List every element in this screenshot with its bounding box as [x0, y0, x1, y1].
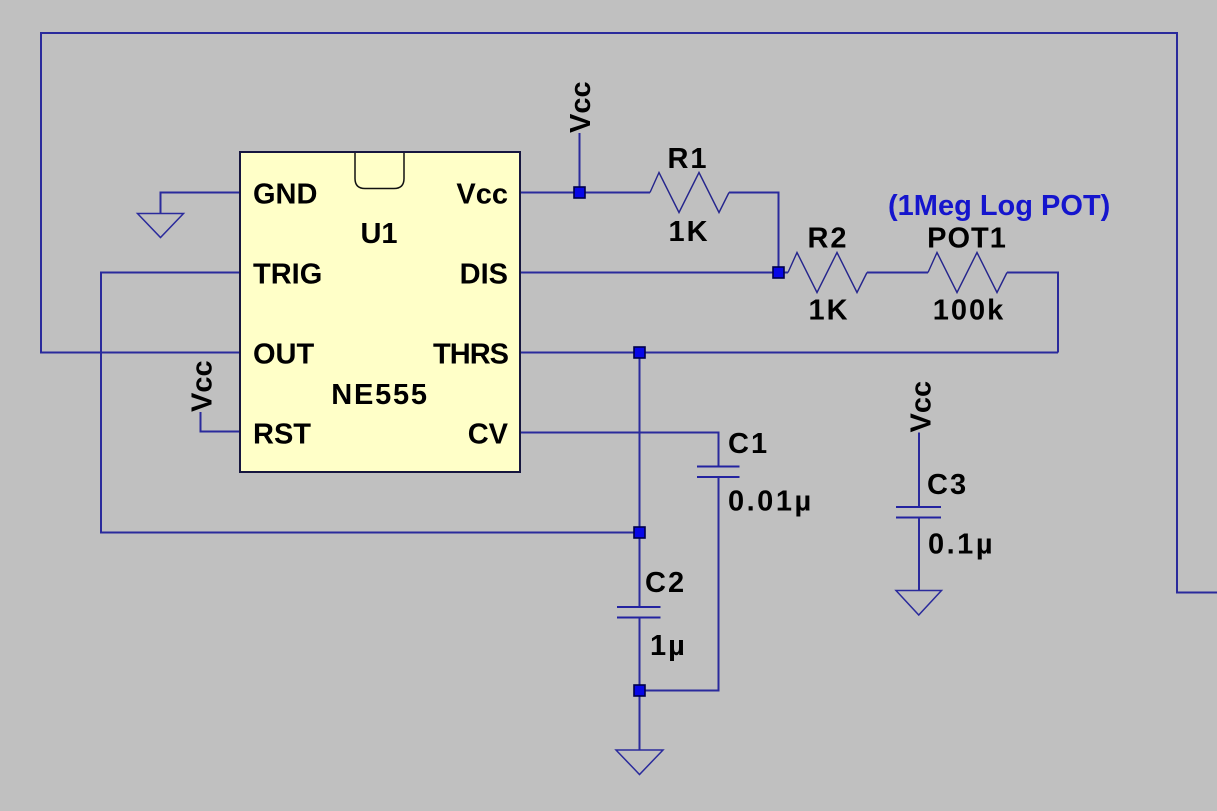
svg-text:(1Meg Log POT): (1Meg Log POT): [888, 190, 1110, 222]
ground (under C3): [896, 591, 942, 616]
svg-text:Vcc: Vcc: [456, 179, 508, 211]
svg-text:1K: 1K: [668, 216, 709, 248]
wire TRIG vertical drop at x=101: [100, 272, 102, 534]
svg-text:CV: CV: [468, 419, 509, 451]
svg-text:0.1µ: 0.1µ: [928, 529, 995, 561]
resistor R2: [788, 223, 867, 327]
svg-text:Vcc: Vcc: [565, 81, 597, 133]
svg-text:Vcc: Vcc: [906, 381, 938, 433]
svg-text:U1: U1: [360, 218, 397, 250]
svg-text:POT1: POT1: [927, 223, 1007, 255]
wire C1 bottom plate down and left to C2 ground junction: [640, 477, 719, 691]
svg-text:C2: C2: [645, 567, 686, 599]
node junction THRS / C2 branch: [634, 347, 645, 358]
pin-1 notch: [355, 153, 404, 189]
wire OUT pin to left side (node OUT): [40, 352, 240, 354]
svg-text:GND: GND: [253, 179, 317, 211]
capacitor C3: [896, 469, 995, 561]
wire THRS pin horizontal (node THRS): [520, 352, 1058, 354]
wire top horizontal of OUT feedback loop: [40, 32, 1178, 34]
wire THRS junction down to C2 top plate: [639, 353, 641, 608]
node junction C1 / C2 ground return: [634, 685, 645, 696]
ground (bottom, under C2): [616, 750, 663, 775]
wire GND drop to ground symbol: [160, 192, 162, 214]
wire Vcc pin to R1 left lead: [520, 192, 650, 194]
node junction TRIG / C2 top: [634, 527, 645, 538]
IC U1 NE555 timer: [240, 152, 520, 472]
potentiometer POT1: [927, 223, 1007, 327]
wire C3 bottom plate to ground: [918, 518, 920, 591]
resistor R1: [650, 143, 729, 248]
svg-text:THRS: THRS: [433, 339, 509, 371]
wire POT1 right lead down to THRS line: [1007, 273, 1058, 353]
ground (at GND pin): [138, 214, 184, 238]
svg-text:Vcc: Vcc: [187, 360, 219, 412]
svg-text:DIS: DIS: [460, 259, 508, 291]
svg-text:R2: R2: [807, 223, 848, 255]
svg-text:C3: C3: [927, 469, 968, 501]
node junction Vcc rail / R1: [574, 187, 585, 198]
svg-text:OUT: OUT: [253, 339, 315, 371]
wire left vertical riser of OUT feedback loop: [40, 32, 42, 354]
power symbol Vcc feeding Vcc pin rail: [565, 81, 597, 192]
wire jog exiting right edge at y=592: [1176, 592, 1217, 594]
wire TRIG bottom horizontal to C2 junction: [100, 532, 640, 534]
capacitor C2: [617, 567, 687, 662]
svg-text:TRIG: TRIG: [253, 259, 322, 291]
svg-text:NE555: NE555: [331, 379, 428, 411]
power symbol Vcc at RST pin: [187, 360, 241, 431]
svg-text:0.01µ: 0.01µ: [728, 486, 814, 518]
svg-text:RST: RST: [253, 419, 311, 451]
wire DIS pin to R2 left lead: [520, 272, 788, 274]
power symbol Vcc at C3: [906, 381, 938, 507]
wire R2 to POT1: [867, 272, 928, 274]
svg-text:C1: C1: [728, 428, 769, 460]
wire CV pin right and down to C1: [520, 433, 719, 467]
svg-text:R1: R1: [667, 143, 708, 175]
wire GND pin to left: [160, 192, 241, 194]
svg-text:1K: 1K: [808, 295, 849, 327]
capacitor C1: [697, 428, 814, 518]
svg-text:1µ: 1µ: [650, 630, 687, 662]
node junction R1 / R2 / DIS: [773, 267, 784, 278]
wire right vertical of OUT feedback loop: [1176, 32, 1178, 594]
wire TRIG pin to left (node TRIG): [100, 272, 240, 274]
svg-text:100k: 100k: [933, 295, 1006, 327]
wire R1 right lead down to DIS node: [729, 193, 779, 273]
wire C2 bottom plate to ground: [639, 618, 641, 751]
